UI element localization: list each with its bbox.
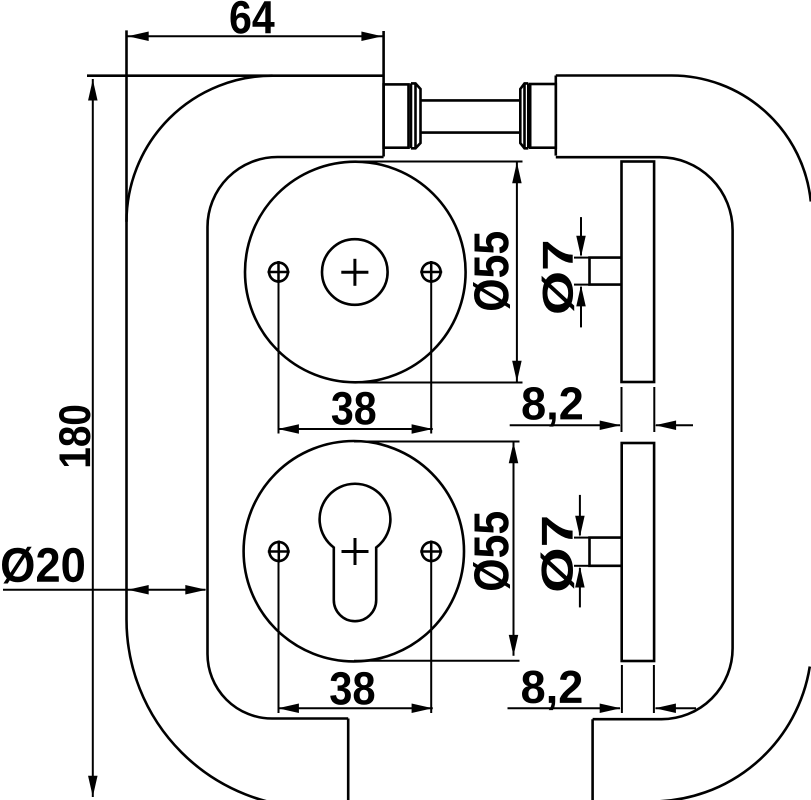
dimension 38 top bbox=[278, 283, 433, 434]
spindle shaft bbox=[421, 100, 521, 132]
top stub Ø7 (side view) bbox=[590, 258, 622, 285]
front view outer contour (lever handle, front projection) bbox=[87, 30, 384, 800]
spindle collar left bbox=[411, 83, 421, 148]
dimension 8,2 top bbox=[510, 387, 693, 432]
dimension 180 bbox=[92, 79, 94, 797]
dimension Ø55 bottom bbox=[354, 442, 520, 661]
screw bottom-right bbox=[420, 541, 442, 563]
screw top-left bbox=[268, 261, 290, 283]
spindle collar right bbox=[520, 83, 528, 148]
side view outer contour bbox=[556, 76, 811, 800]
spindle ring right bbox=[530, 84, 556, 148]
top rosette (front view, Ø55) bbox=[245, 162, 466, 383]
dimension 8,2 bottom bbox=[508, 665, 697, 713]
dimension 38 bottom bbox=[278, 562, 433, 713]
handle bearing circle on top rosette bbox=[322, 239, 388, 305]
top rosette side profile (8.2 thick) bbox=[622, 162, 655, 383]
spindle ring left bbox=[384, 84, 409, 147]
bottom stub Ø7 (side view) bbox=[590, 538, 622, 566]
dimension Ø20 leader bbox=[3, 589, 206, 591]
screw bottom-left bbox=[268, 541, 290, 563]
neck end cap (side view) bbox=[554, 76, 557, 156]
bottom rosette side profile (8.2 thick) bbox=[622, 443, 654, 661]
dimension Ø7 bottom bbox=[574, 495, 590, 608]
neck end cap (front view) bbox=[382, 31, 385, 157]
screw top-right bbox=[420, 261, 442, 283]
PZ keyhole bbox=[320, 484, 391, 621]
side view inner contour bbox=[556, 157, 733, 800]
front view inner contour (tube inner edge) bbox=[208, 157, 384, 719]
dimension 64 bbox=[128, 35, 383, 37]
center cross bottom rosette bbox=[342, 538, 369, 565]
bottom rosette (front view, Ø55, cylinder escutcheon) bbox=[244, 441, 464, 661]
dimension Ø7 top bbox=[574, 217, 590, 327]
dimension Ø55 top bbox=[355, 162, 523, 383]
center cross top rosette bbox=[341, 259, 368, 286]
